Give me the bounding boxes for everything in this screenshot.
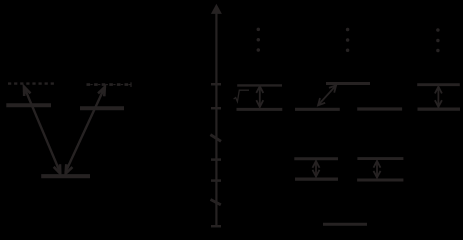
axis tick y=180: [211, 179, 221, 182]
ground level g: [41, 174, 90, 178]
mid-row right splitting arrow shaft: [376, 161, 378, 178]
column A splitting arrow shaft: [259, 86, 261, 107]
level e2 (upper right): [80, 106, 124, 110]
diagonal coupling arrow shaft: [318, 86, 336, 106]
V arrow head: g-e1 bottom: [54, 164, 64, 175]
mid-row right arrow heads: [374, 161, 381, 168]
col D arrow heads: [435, 87, 442, 94]
dash-dot virtual level (right): [87, 83, 131, 86]
mid-row right pair lower level: [357, 178, 403, 181]
axis tick y=159: [211, 158, 221, 161]
ellipsis dots column 2: [346, 28, 350, 32]
axis arrowhead: [211, 4, 222, 14]
V arrow head: g-e2 top: [98, 85, 108, 96]
energy axis: [215, 13, 217, 227]
dashed virtual level (left): [8, 82, 54, 84]
mid-row left splitting arrow shaft: [315, 161, 317, 177]
middle shared upper level: [326, 82, 370, 85]
column A lower level: [237, 108, 283, 111]
transition arrow g - e1 shaft: [24, 87, 60, 172]
middle lower-left level: [295, 108, 340, 111]
axis tick y=108: [211, 107, 221, 110]
ellipsis dots column 1: [257, 28, 261, 32]
ground state level: [323, 223, 367, 226]
middle lower-right level: [357, 107, 402, 110]
mid-row right pair upper level: [357, 157, 403, 160]
axis break mark 2: [211, 200, 221, 205]
column D splitting arrow shaft: [437, 86, 439, 107]
axis tick y=84: [211, 83, 221, 86]
level e1 (upper left): [6, 103, 51, 107]
mid-row left pair upper level: [294, 157, 338, 160]
axis tick y=226: [211, 225, 221, 228]
column A upper level: [237, 84, 282, 86]
diagonal arrow heads: [329, 83, 339, 93]
ellipsis dots column 3: [436, 28, 440, 32]
col A arrow heads: [256, 86, 263, 93]
column D lower level: [418, 107, 461, 110]
mid-row left arrow heads: [313, 161, 320, 168]
V arrow head: g-e2 bottom: [63, 164, 73, 175]
V arrow head: g-e1 top: [21, 85, 31, 96]
sqrt label: [234, 90, 249, 101]
mid-row left pair lower level: [295, 178, 338, 181]
axis break mark 1: [210, 135, 221, 142]
column D upper level: [417, 83, 460, 86]
transition arrow g - e2 shaft: [65, 87, 104, 172]
